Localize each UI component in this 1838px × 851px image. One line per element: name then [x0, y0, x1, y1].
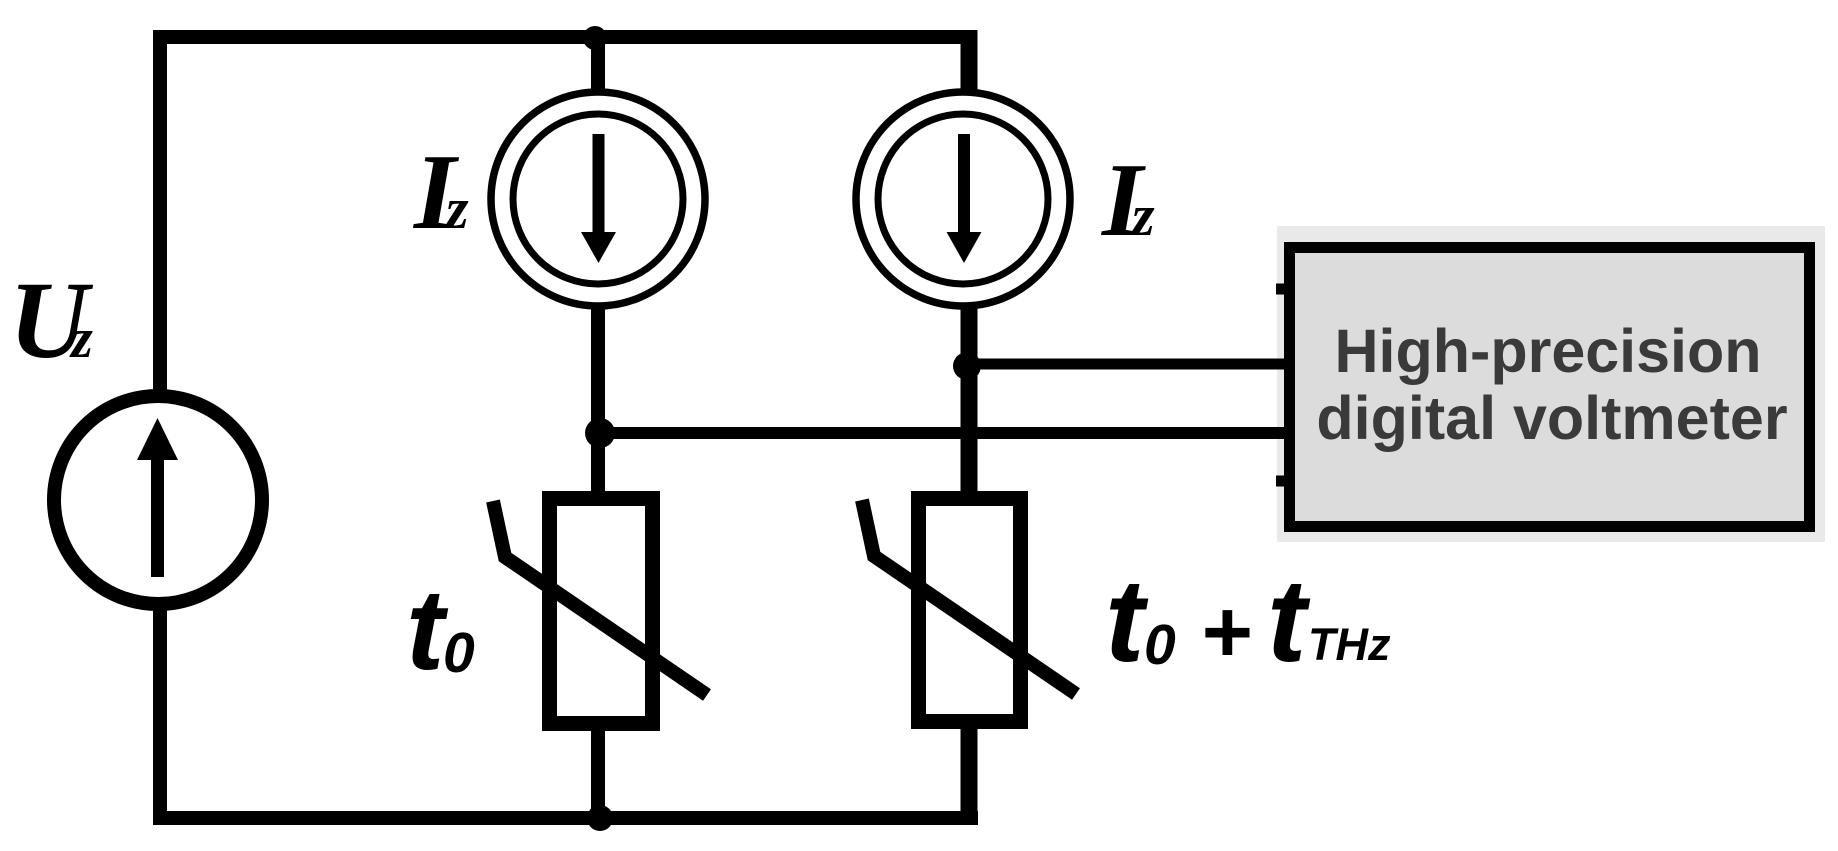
svg-text:High-precision: High-precision: [1334, 317, 1761, 385]
thermistor R2 diagonal: [862, 500, 1076, 694]
current source I2 outer circle: [856, 92, 1070, 306]
svg-text:z: z: [69, 308, 93, 370]
current source I2 inner circle: [878, 114, 1048, 284]
current source I1 inner circle: [513, 114, 683, 284]
current source I1 outer circle: [491, 92, 705, 306]
wire left branch top stub: [591, 30, 605, 95]
thermistor R1 diagonal: [493, 501, 707, 695]
voltmeter terminal stub bottom: [1276, 476, 1292, 487]
svg-text:z: z: [444, 176, 469, 241]
svg-text:digital voltmeter: digital voltmeter: [1316, 384, 1787, 452]
voltmeter box: [1290, 248, 1810, 527]
label t0 + tTHz: [1105, 555, 1391, 687]
wire left branch bottom: [591, 720, 605, 825]
voltmeter terminal stub top: [1276, 284, 1292, 295]
wire left vertical lower: [153, 608, 167, 825]
thermistor R1 body: [550, 499, 653, 724]
svg-text:+: +: [1200, 582, 1251, 681]
wire voltmeter upper lead: [967, 359, 1286, 370]
voltmeter outer band: [1277, 226, 1825, 542]
label Iz right: [1100, 141, 1155, 258]
label Uz: [9, 259, 94, 381]
label Iz left: [412, 133, 469, 252]
svg-text:0: 0: [443, 621, 475, 685]
thermistor R2 body: [919, 499, 1021, 722]
node bottom junction: [587, 805, 613, 831]
svg-text:THz: THz: [1308, 619, 1391, 670]
svg-text:t: t: [1267, 555, 1311, 687]
label t0: [406, 566, 475, 694]
svg-text:t: t: [1105, 555, 1149, 687]
wire bottom horizontal: [153, 811, 978, 825]
wire right branch middle: [961, 308, 978, 500]
wire left branch middle: [591, 308, 605, 500]
wire right branch bottom: [961, 718, 978, 825]
node B junction: [953, 352, 981, 380]
wire top horizontal: [153, 30, 977, 44]
svg-text:z: z: [1130, 183, 1155, 248]
voltage source U1 circle: [54, 396, 262, 604]
wire right branch top stub: [961, 30, 978, 95]
node A junction: [585, 418, 615, 448]
wire voltmeter lower lead: [600, 427, 1286, 439]
svg-text:0: 0: [1144, 613, 1176, 677]
wire left vertical upper: [153, 30, 167, 393]
voltage source U1 arrow up: [137, 418, 178, 577]
current source I1 arrow down: [581, 134, 616, 263]
current source I2 arrow down: [947, 134, 982, 263]
node top junction: [583, 26, 607, 50]
